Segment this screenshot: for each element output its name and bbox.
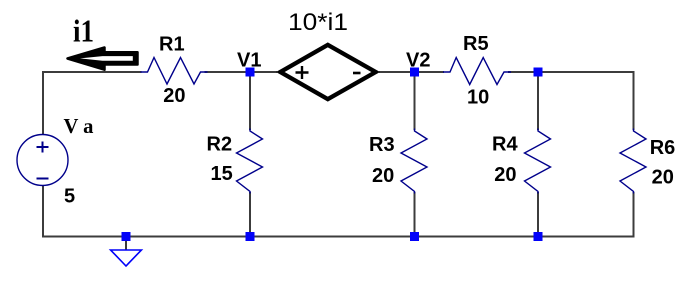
svg-text:R4: R4 bbox=[492, 134, 518, 156]
svg-text:V2: V2 bbox=[406, 49, 430, 71]
svg-text:R2: R2 bbox=[207, 134, 233, 156]
svg-text:5: 5 bbox=[64, 185, 75, 207]
svg-text:V1: V1 bbox=[237, 49, 261, 71]
svg-text:15: 15 bbox=[211, 163, 233, 185]
svg-text:R1: R1 bbox=[159, 34, 185, 56]
svg-text:i1: i1 bbox=[73, 13, 94, 49]
svg-text:20: 20 bbox=[372, 165, 394, 187]
svg-text:20: 20 bbox=[652, 166, 674, 188]
svg-text:20: 20 bbox=[494, 164, 516, 186]
svg-text:10: 10 bbox=[467, 87, 489, 109]
svg-text:R6: R6 bbox=[650, 137, 676, 159]
svg-text:R5: R5 bbox=[463, 33, 489, 55]
svg-text:20: 20 bbox=[163, 85, 185, 107]
svg-text:V a: V a bbox=[64, 114, 94, 138]
svg-text:R3: R3 bbox=[369, 134, 395, 156]
svg-text:10*i1: 10*i1 bbox=[288, 9, 348, 36]
